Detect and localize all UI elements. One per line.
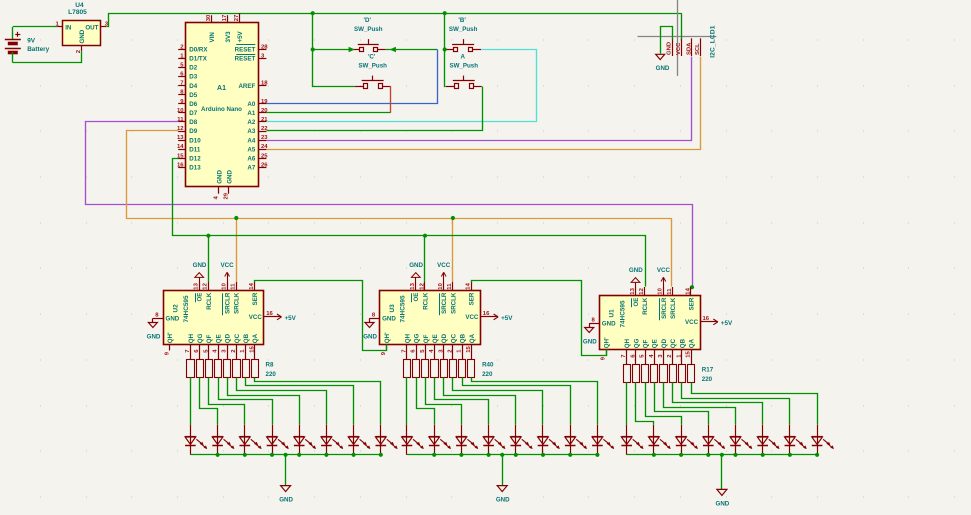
svg-text:QF: QF bbox=[206, 334, 213, 343]
svg-text:I2C_LCD1: I2C_LCD1 bbox=[709, 25, 716, 58]
svg-text:13: 13 bbox=[630, 287, 636, 294]
svg-text:A6: A6 bbox=[247, 155, 255, 162]
svg-text:QC: QC bbox=[670, 338, 677, 348]
svg-text:R17: R17 bbox=[702, 367, 714, 374]
svg-text:QB: QB bbox=[460, 333, 467, 343]
svg-text:GND: GND bbox=[216, 170, 223, 184]
svg-text:A3: A3 bbox=[247, 128, 255, 135]
svg-text:QB: QB bbox=[243, 333, 250, 343]
svg-text:QD: QD bbox=[441, 333, 448, 343]
svg-text:GND: GND bbox=[193, 262, 207, 269]
svg-text:Battery: Battery bbox=[27, 46, 49, 53]
svg-text:D9: D9 bbox=[189, 128, 197, 135]
svg-text:GND: GND bbox=[629, 267, 643, 274]
svg-text:GND: GND bbox=[147, 334, 161, 341]
svg-text:D2: D2 bbox=[189, 65, 197, 72]
svg-text:74HC595: 74HC595 bbox=[183, 295, 190, 322]
svg-text:A1: A1 bbox=[247, 110, 255, 117]
svg-text:GND: GND bbox=[656, 65, 670, 72]
svg-text:+5V: +5V bbox=[501, 315, 513, 322]
svg-text:VCC: VCC bbox=[437, 262, 451, 269]
svg-text:220: 220 bbox=[482, 371, 493, 378]
svg-text:15: 15 bbox=[249, 346, 255, 353]
svg-text:D5: D5 bbox=[189, 92, 197, 99]
svg-text:A0: A0 bbox=[247, 101, 255, 108]
svg-text:QH': QH' bbox=[384, 332, 391, 343]
svg-text:RESET: RESET bbox=[235, 47, 256, 54]
svg-text:11: 11 bbox=[447, 283, 453, 290]
svg-text:29: 29 bbox=[223, 192, 229, 199]
svg-text:9V: 9V bbox=[27, 37, 36, 44]
svg-text:14: 14 bbox=[249, 282, 255, 289]
svg-text:L7805: L7805 bbox=[68, 9, 87, 16]
svg-text:15: 15 bbox=[466, 346, 472, 353]
svg-text:A4: A4 bbox=[247, 137, 255, 144]
svg-text:13: 13 bbox=[177, 135, 184, 141]
svg-text:D11: D11 bbox=[189, 146, 201, 153]
svg-text:RESET: RESET bbox=[235, 56, 256, 63]
svg-text:QH': QH' bbox=[604, 337, 611, 348]
svg-text:SCL: SCL bbox=[695, 43, 701, 55]
svg-text:SRCLR: SRCLR bbox=[441, 292, 448, 314]
svg-text:QC: QC bbox=[234, 333, 241, 343]
svg-text:SW_Push: SW_Push bbox=[449, 26, 478, 33]
svg-text:11: 11 bbox=[667, 288, 673, 295]
svg-text:+5V: +5V bbox=[721, 320, 733, 327]
svg-text:R40: R40 bbox=[482, 362, 494, 369]
svg-text:A2: A2 bbox=[247, 119, 255, 126]
svg-text:QD: QD bbox=[661, 338, 668, 348]
svg-text:VCC: VCC bbox=[221, 262, 235, 269]
svg-text:SW_Push: SW_Push bbox=[449, 63, 478, 70]
svg-text:RCLK: RCLK bbox=[206, 292, 213, 310]
svg-text:GND: GND bbox=[363, 334, 377, 341]
svg-text:26: 26 bbox=[261, 162, 268, 168]
svg-text:QC: QC bbox=[450, 333, 457, 343]
svg-text:'B': 'B' bbox=[458, 17, 466, 24]
svg-text:SER: SER bbox=[688, 297, 695, 310]
svg-text:QF: QF bbox=[423, 334, 430, 343]
svg-text:GND: GND bbox=[716, 500, 730, 507]
svg-text:11: 11 bbox=[231, 283, 237, 290]
svg-text:OE: OE bbox=[197, 293, 204, 302]
svg-text:U4: U4 bbox=[75, 2, 84, 9]
svg-text:10: 10 bbox=[177, 108, 184, 114]
svg-text:220: 220 bbox=[702, 376, 713, 383]
svg-text:QA: QA bbox=[252, 333, 259, 343]
svg-text:10: 10 bbox=[658, 287, 664, 294]
svg-text:IN: IN bbox=[65, 24, 72, 31]
svg-text:GND: GND bbox=[667, 42, 673, 55]
svg-text:D8: D8 bbox=[189, 119, 197, 126]
svg-text:D7: D7 bbox=[189, 110, 197, 117]
svg-text:QG: QG bbox=[414, 333, 421, 343]
svg-text:GND: GND bbox=[279, 497, 293, 504]
svg-text:A5: A5 bbox=[247, 146, 255, 153]
svg-text:VCC: VCC bbox=[676, 42, 682, 55]
svg-text:GND: GND bbox=[382, 316, 396, 323]
svg-text:SER: SER bbox=[469, 292, 476, 305]
svg-text:SRCLK: SRCLK bbox=[670, 297, 677, 319]
svg-text:SDA: SDA bbox=[686, 42, 692, 55]
svg-text:28: 28 bbox=[261, 44, 268, 50]
svg-text:VIN: VIN bbox=[209, 32, 216, 43]
svg-text:D4: D4 bbox=[189, 83, 197, 90]
svg-text:D12: D12 bbox=[189, 155, 201, 162]
svg-text:QE: QE bbox=[652, 339, 659, 348]
svg-text:14: 14 bbox=[685, 287, 691, 294]
svg-text:QE: QE bbox=[215, 334, 222, 343]
svg-text:QA: QA bbox=[469, 333, 476, 343]
svg-text:D13: D13 bbox=[189, 165, 201, 172]
svg-text:+5V: +5V bbox=[285, 315, 297, 322]
svg-text:VCC: VCC bbox=[465, 314, 479, 321]
svg-text:220: 220 bbox=[266, 371, 277, 378]
svg-text:30: 30 bbox=[206, 14, 212, 21]
svg-text:RCLK: RCLK bbox=[422, 292, 429, 310]
svg-text:QA: QA bbox=[689, 338, 696, 348]
svg-text:Arduino Nano: Arduino Nano bbox=[201, 106, 242, 113]
svg-text:GND: GND bbox=[166, 316, 180, 323]
svg-text:QB: QB bbox=[679, 338, 686, 348]
svg-text:12: 12 bbox=[419, 282, 425, 289]
svg-text:QH': QH' bbox=[167, 332, 174, 343]
svg-text:D1/TX: D1/TX bbox=[189, 56, 207, 63]
svg-text:QG: QG bbox=[197, 333, 204, 343]
svg-text:QF: QF bbox=[643, 339, 650, 348]
svg-text:13: 13 bbox=[194, 282, 200, 289]
svg-text:74HC595: 74HC595 bbox=[400, 295, 407, 322]
svg-text:12: 12 bbox=[203, 282, 209, 289]
svg-text:SRCLK: SRCLK bbox=[450, 292, 457, 314]
svg-text:VCC: VCC bbox=[249, 314, 263, 321]
svg-text:27: 27 bbox=[234, 14, 240, 21]
svg-text:GND: GND bbox=[79, 29, 86, 43]
svg-text:R8: R8 bbox=[266, 362, 274, 369]
svg-text:D3: D3 bbox=[189, 74, 197, 81]
svg-text:U1: U1 bbox=[609, 309, 616, 318]
svg-text:OE: OE bbox=[413, 293, 420, 302]
svg-text:74HC595: 74HC595 bbox=[619, 300, 626, 327]
svg-text:RCLK: RCLK bbox=[642, 297, 649, 315]
svg-text:OE: OE bbox=[633, 298, 640, 307]
svg-text:15: 15 bbox=[686, 351, 692, 358]
svg-text:QH: QH bbox=[188, 333, 195, 343]
svg-text:A7: A7 bbox=[247, 165, 255, 172]
svg-text:3V3: 3V3 bbox=[225, 31, 232, 43]
svg-text:QH: QH bbox=[404, 333, 411, 343]
svg-text:QH: QH bbox=[624, 338, 631, 348]
svg-text:'C': 'C' bbox=[368, 53, 376, 60]
svg-text:18: 18 bbox=[261, 81, 268, 87]
svg-text:QD: QD bbox=[225, 333, 232, 343]
svg-text:A: A bbox=[461, 53, 466, 60]
svg-text:QE: QE bbox=[432, 334, 439, 343]
svg-text:14: 14 bbox=[466, 282, 472, 289]
svg-text:10: 10 bbox=[221, 282, 227, 289]
svg-text:16: 16 bbox=[177, 162, 184, 168]
svg-text:13: 13 bbox=[410, 282, 416, 289]
svg-text:GND: GND bbox=[602, 321, 616, 328]
svg-text:VCC: VCC bbox=[657, 267, 671, 274]
svg-text:17: 17 bbox=[222, 14, 228, 21]
svg-text:OUT: OUT bbox=[85, 24, 98, 31]
svg-text:SRCLK: SRCLK bbox=[234, 292, 241, 314]
svg-text:GND: GND bbox=[496, 497, 510, 504]
svg-text:QG: QG bbox=[633, 338, 640, 348]
svg-text:12: 12 bbox=[639, 287, 645, 294]
svg-text:SRCLR: SRCLR bbox=[661, 297, 668, 319]
svg-text:AREF: AREF bbox=[238, 83, 255, 90]
svg-text:GND: GND bbox=[409, 262, 423, 269]
svg-text:SRCLR: SRCLR bbox=[225, 292, 232, 314]
svg-text:SW_Push: SW_Push bbox=[354, 26, 383, 33]
svg-text:+5V: +5V bbox=[237, 30, 244, 42]
svg-text:SER: SER bbox=[252, 292, 259, 305]
svg-text:U2: U2 bbox=[172, 304, 179, 313]
svg-text:U3: U3 bbox=[389, 304, 396, 313]
svg-text:A1: A1 bbox=[217, 85, 226, 92]
svg-text:D0/RX: D0/RX bbox=[189, 47, 208, 54]
svg-text:25: 25 bbox=[261, 153, 268, 159]
svg-text:'D': 'D' bbox=[364, 17, 372, 24]
svg-text:SW_Push: SW_Push bbox=[358, 63, 387, 70]
svg-text:10: 10 bbox=[438, 282, 444, 289]
svg-text:VCC: VCC bbox=[685, 319, 699, 326]
svg-text:D10: D10 bbox=[189, 137, 201, 144]
svg-text:D6: D6 bbox=[189, 101, 197, 108]
svg-text:14: 14 bbox=[177, 144, 184, 150]
svg-text:GND: GND bbox=[226, 170, 233, 184]
svg-text:GND: GND bbox=[583, 339, 597, 346]
